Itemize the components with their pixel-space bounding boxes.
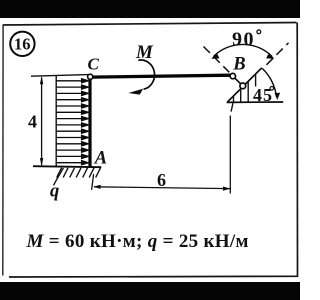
hatch stroke below base <box>231 102 233 111</box>
frame border bottom <box>9 275 298 278</box>
bottom scan black band <box>0 282 300 300</box>
load left boundary line <box>55 76 57 167</box>
q leader line <box>54 168 64 185</box>
dimension 4 bottom arrowhead <box>40 158 43 166</box>
moment M arrowhead <box>128 89 143 95</box>
frame border left <box>2 25 4 276</box>
90 arc right arrowhead <box>266 53 274 59</box>
dimension 6 left tick <box>92 174 94 190</box>
frame border right <box>296 23 298 278</box>
dimension 4 line <box>41 78 43 166</box>
ground hatching <box>57 168 101 178</box>
hinge circle C <box>88 74 93 79</box>
dimension 6 right extension line <box>229 116 231 194</box>
dimension 6 left arrowhead <box>93 185 100 189</box>
support base line <box>227 101 284 103</box>
pin circle at B (member end) <box>230 73 235 78</box>
support hatching vertical strokes <box>234 74 256 102</box>
45 degree arc with arrowhead <box>262 68 276 96</box>
svg-text:90: 90 <box>232 28 255 50</box>
incline surface line <box>228 68 262 102</box>
svg-text:4: 4 <box>28 112 37 132</box>
frame border top <box>3 23 297 26</box>
distributed load q arrows <box>56 79 88 165</box>
svg-text:6: 6 <box>157 170 166 190</box>
svg-text:A: A <box>94 148 107 168</box>
dashed ray up-left of B <box>204 47 230 73</box>
svg-text:M = 60 кН·м; q = 25 кН/м: M = 60 кН·м; q = 25 кН/м <box>26 231 249 252</box>
top scan black band <box>0 0 300 18</box>
svg-text:B: B <box>232 55 245 75</box>
dashed ray up-right along incline <box>267 43 289 65</box>
dimension 6 right arrowhead <box>223 187 230 191</box>
90 degree arc <box>214 44 273 56</box>
svg-text:q: q <box>50 182 59 202</box>
svg-text:C: C <box>88 55 100 74</box>
svg-text:16: 16 <box>14 34 31 53</box>
dimension 4 top arrowhead <box>40 76 43 84</box>
moment M arc arrow <box>138 60 154 89</box>
roller circle on incline <box>240 83 246 89</box>
load top extension line <box>31 75 89 77</box>
dimension 6 line <box>94 187 230 189</box>
ground line at A <box>33 166 101 167</box>
horizontal member CB <box>92 75 231 77</box>
90 arc left arrowhead <box>211 53 219 59</box>
link rod at B <box>235 78 241 84</box>
vertical member AC <box>88 77 91 167</box>
problem number circle 16 <box>10 32 34 56</box>
